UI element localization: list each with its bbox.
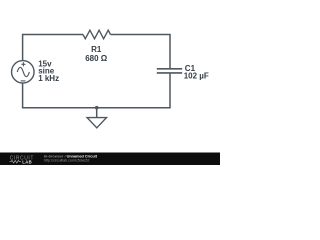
wire: top-left vertical + top horizontal left segment <box>23 35 83 61</box>
footer text line 1: In-browser / Unnamed Circuit <box>44 155 98 159</box>
label 15v <box>38 59 52 68</box>
label C1 <box>185 64 196 73</box>
svg-text:1 kHz: 1 kHz <box>38 74 59 83</box>
wire: top horizontal right segment + right vertical down to C1 <box>111 35 171 69</box>
svg-text:http://circuitlab.com/c5dxe52: http://circuitlab.com/c5dxe52 <box>44 158 90 162</box>
footer CircuitLab logo LAB <box>22 159 32 164</box>
voltage source plus sign <box>21 62 25 66</box>
footer CircuitLab logo resistor zigzag <box>10 160 22 163</box>
wire: ground stub <box>96 108 98 118</box>
svg-text:LAB: LAB <box>22 159 32 164</box>
footer CircuitLab logo CIRCUIT <box>10 156 34 162</box>
capacitor C1 <box>157 69 182 73</box>
svg-text:680 Ω: 680 Ω <box>85 54 108 63</box>
voltage source minus sign <box>21 80 26 82</box>
label sine <box>38 67 55 76</box>
label 102 uF <box>184 71 209 80</box>
svg-text:102 µF: 102 µF <box>184 71 209 80</box>
svg-text:R1: R1 <box>91 45 102 54</box>
label 680 ohm <box>85 54 108 63</box>
resistor R1 <box>83 30 111 39</box>
voltage source V1 circle <box>12 61 35 84</box>
footer text line 2: circuitlab url <box>44 158 90 162</box>
voltage source sine symbol <box>17 67 29 76</box>
junction node dot <box>95 106 99 110</box>
wire: from C1 bottom down, bottom horizontal, up to source bottom <box>23 74 170 108</box>
label 1 kHz <box>38 74 59 83</box>
label R1 <box>91 45 102 54</box>
ground symbol <box>87 118 106 128</box>
footer bar <box>0 153 220 166</box>
